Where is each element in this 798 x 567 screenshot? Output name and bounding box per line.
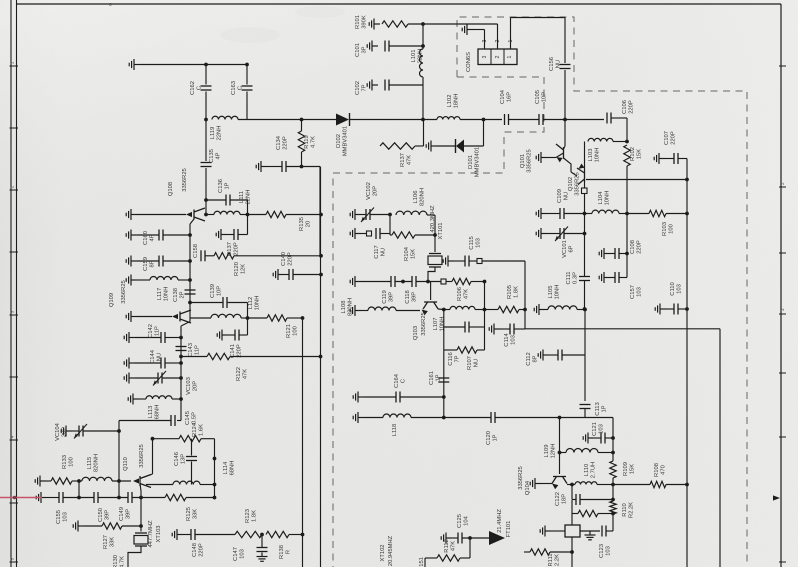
resistor R111 <box>578 510 598 516</box>
resistor R112 <box>437 555 460 561</box>
wire Q102 collector <box>584 142 586 171</box>
wire <box>611 117 627 119</box>
svg-text:0.3P: 0.3P <box>573 272 579 284</box>
frame tick <box>10 189 19 191</box>
capacitor C147 <box>257 548 268 552</box>
svg-text:420.3MHZ: 420.3MHZ <box>430 205 436 233</box>
svg-text:10P: 10P <box>542 92 548 102</box>
svg-text:C109: C109 <box>557 189 563 203</box>
junction <box>558 451 562 455</box>
capacitor C120 <box>491 412 495 423</box>
svg-text:8P: 8P <box>150 260 156 267</box>
wire <box>577 309 585 311</box>
resistor R138 <box>266 531 289 537</box>
svg-text:MMBV3401: MMBV3401 <box>475 147 481 177</box>
wire rail x559 <box>559 418 561 475</box>
svg-text:C123: C123 <box>599 544 605 558</box>
wire rail x181 <box>180 326 182 421</box>
junction <box>139 524 143 528</box>
capacitor C117 <box>376 228 380 239</box>
junction <box>421 118 425 122</box>
ground <box>126 311 137 322</box>
svg-text:R124: R124 <box>192 422 198 437</box>
wire <box>238 234 248 236</box>
wire <box>464 145 484 147</box>
junction <box>151 437 155 441</box>
signal arrow <box>489 531 505 545</box>
svg-text:3: 3 <box>482 55 488 58</box>
capacitor C110 <box>674 304 678 315</box>
svg-text:10P: 10P <box>217 286 223 296</box>
junction <box>433 233 437 237</box>
wire <box>627 213 649 215</box>
junction <box>442 395 446 399</box>
inductor L103 <box>588 138 613 141</box>
inductor L108 <box>368 307 396 311</box>
junction <box>401 280 405 284</box>
svg-text:22NH: 22NH <box>418 49 424 64</box>
junction <box>246 316 250 320</box>
wire <box>678 308 687 310</box>
emitter arrow Q110 <box>133 478 139 483</box>
wire <box>619 277 627 279</box>
junction <box>301 533 305 537</box>
wire <box>580 530 600 532</box>
wire long row y328 <box>525 328 720 330</box>
ground <box>36 492 47 503</box>
wire rail x443 <box>443 310 445 418</box>
wire <box>424 558 426 567</box>
svg-text:C136: C136 <box>218 179 224 193</box>
svg-text:R135: R135 <box>299 217 305 231</box>
wire <box>205 65 207 85</box>
svg-text:2P: 2P <box>180 291 186 298</box>
wire <box>437 145 456 147</box>
capacitor C101 <box>385 41 389 52</box>
svg-text:C113: C113 <box>595 402 601 415</box>
svg-text:R102: R102 <box>630 147 636 161</box>
wire <box>610 277 615 279</box>
svg-text:220P: 220P <box>288 252 294 266</box>
wire <box>227 302 248 304</box>
wire <box>524 261 526 310</box>
svg-text:1.8K: 1.8K <box>514 286 520 298</box>
svg-text:103: 103 <box>63 512 69 522</box>
junction <box>426 280 430 284</box>
wire <box>286 214 321 216</box>
svg-text:15K: 15K <box>630 464 636 474</box>
svg-text:1P: 1P <box>493 434 499 441</box>
resistor R107 <box>457 347 477 353</box>
svg-text:D101: D101 <box>468 155 474 169</box>
junction <box>483 280 487 284</box>
transistor Q108 <box>194 208 205 221</box>
ground <box>599 272 610 283</box>
wire <box>686 159 688 180</box>
junction <box>300 118 304 122</box>
junction <box>117 429 121 433</box>
wire <box>571 172 577 176</box>
svg-text:R101: R101 <box>355 15 361 29</box>
wire <box>612 478 614 501</box>
svg-text:22NH: 22NH <box>217 126 223 141</box>
svg-text:47K: 47K <box>243 369 249 379</box>
svg-text:XT103: XT103 <box>156 525 162 542</box>
junction <box>188 278 192 282</box>
frame tick <box>779 186 786 188</box>
wire <box>665 158 674 160</box>
wire <box>135 377 158 379</box>
svg-text:12K: 12K <box>241 264 247 274</box>
resistor R124 <box>179 436 201 442</box>
capacitor C150 <box>94 492 98 503</box>
svg-text:C: C <box>197 86 203 90</box>
capacitor C105 <box>539 114 543 125</box>
inductor L110 <box>575 482 597 485</box>
wire <box>364 396 396 398</box>
dashed boundary bottom of connector box <box>457 76 544 78</box>
svg-text:1P: 1P <box>436 374 442 381</box>
svg-text:C: C <box>238 86 244 90</box>
border frame left <box>10 0 12 567</box>
resistor R110 <box>610 501 616 514</box>
svg-text:20P: 20P <box>62 427 68 437</box>
wire <box>444 349 457 351</box>
wire rail x302 <box>302 318 304 567</box>
wire <box>666 484 687 486</box>
wire <box>626 166 628 214</box>
wire Q108 base rail <box>189 224 191 312</box>
svg-text:103: 103 <box>606 546 612 556</box>
inductor L106 <box>396 211 427 215</box>
svg-text:10NH: 10NH <box>255 296 261 311</box>
junction <box>245 63 249 67</box>
junction <box>611 436 615 440</box>
wire <box>132 497 165 499</box>
svg-text:XT101: XT101 <box>438 222 444 239</box>
svg-text:L106: L106 <box>413 191 419 204</box>
junction <box>685 483 689 487</box>
wire <box>191 439 193 456</box>
junction <box>611 498 615 502</box>
wire <box>83 430 119 432</box>
inductor L112 <box>211 314 241 318</box>
wire <box>572 513 578 515</box>
wire <box>469 260 477 262</box>
svg-text:NU: NU <box>157 353 163 361</box>
ground <box>367 41 378 52</box>
capacitor C149 <box>128 492 132 503</box>
border frame top <box>17 3 782 5</box>
junction <box>570 483 574 487</box>
ground <box>534 304 545 315</box>
svg-text:C138: C138 <box>173 288 179 302</box>
wire Q110 base <box>140 484 141 515</box>
svg-text:20P: 20P <box>193 381 199 391</box>
wire <box>389 84 423 86</box>
svg-text:Q102: Q102 <box>568 177 574 191</box>
wire <box>284 274 289 276</box>
wire <box>248 214 267 216</box>
junction <box>685 178 689 182</box>
resistor R105 <box>498 306 519 312</box>
svg-text:390K: 390K <box>362 15 368 29</box>
capacitor C141 <box>235 330 239 341</box>
resistor R119 <box>298 131 304 152</box>
wire <box>98 497 128 499</box>
wire <box>146 484 173 486</box>
wire <box>163 260 190 262</box>
svg-text:R104: R104 <box>404 246 410 261</box>
svg-text:L104: L104 <box>598 191 604 205</box>
svg-text:C106: C106 <box>622 100 628 114</box>
svg-text:2: 2 <box>495 55 501 58</box>
svg-text:C155: C155 <box>56 510 62 524</box>
capacitor C161 <box>438 378 449 382</box>
wire rail x390 <box>389 215 391 236</box>
svg-text:C163: C163 <box>231 81 237 95</box>
wire <box>301 120 303 132</box>
Q102 emitter pad <box>582 188 588 194</box>
svg-text:8P: 8P <box>533 355 539 362</box>
capacitor C160 <box>159 230 163 241</box>
connector CON6S body <box>478 49 517 65</box>
wire <box>395 281 412 283</box>
svg-text:C164: C164 <box>394 373 400 388</box>
svg-text:C104: C104 <box>500 89 506 104</box>
inductor L104 <box>592 210 619 213</box>
svg-text:R: R <box>286 550 292 554</box>
capacitor C114 <box>510 324 514 335</box>
wire <box>524 310 526 330</box>
svg-text:39P: 39P <box>105 510 111 520</box>
svg-text:VC102: VC102 <box>366 182 372 200</box>
frame tick <box>10 561 19 563</box>
junction <box>213 457 217 461</box>
capacitor C162 <box>201 86 212 90</box>
wire rail to Q101 <box>564 70 566 146</box>
svg-text:4.7K: 4.7K <box>311 136 317 148</box>
inductor L109 <box>566 449 598 453</box>
wire <box>230 199 248 201</box>
wire <box>626 118 628 142</box>
svg-text:C116: C116 <box>448 352 454 365</box>
junction <box>563 118 567 122</box>
svg-text:L110: L110 <box>584 464 590 476</box>
svg-text:C150: C150 <box>98 508 104 522</box>
junction <box>117 496 121 500</box>
transistor Q104 <box>552 477 567 484</box>
junction <box>558 416 562 420</box>
wire rail x484 <box>484 282 486 351</box>
wire Q102 to pad <box>584 182 586 188</box>
junction <box>188 301 192 305</box>
resistor R101 <box>382 21 408 27</box>
svg-text:L108: L108 <box>341 301 347 314</box>
svg-text:103: 103 <box>240 549 246 559</box>
frame arrow mark <box>773 495 780 500</box>
wire <box>547 233 560 235</box>
capacitor C115 <box>465 256 469 267</box>
resistor R108 <box>650 481 666 487</box>
svg-text:103: 103 <box>677 284 683 294</box>
svg-text:R106: R106 <box>457 287 463 301</box>
svg-text:2.2K: 2.2K <box>555 554 561 566</box>
capacitor C138 <box>185 290 196 294</box>
svg-text:R125: R125 <box>186 507 192 521</box>
svg-text:3356R25: 3356R25 <box>139 444 145 468</box>
svg-text:Q101: Q101 <box>520 154 526 168</box>
junction <box>188 259 192 263</box>
svg-text:C139: C139 <box>210 284 216 298</box>
junction <box>179 376 183 380</box>
wire <box>678 158 687 160</box>
svg-text:C119: C119 <box>382 290 388 303</box>
capacitor C136 <box>226 195 230 206</box>
svg-text:R119: R119 <box>304 135 310 148</box>
svg-text:R127: R127 <box>103 535 109 549</box>
junction <box>388 213 392 217</box>
ground <box>585 531 596 540</box>
diode D102 <box>336 114 349 126</box>
junction <box>319 273 323 277</box>
svg-text:C118: C118 <box>405 290 411 303</box>
wire <box>425 557 437 559</box>
svg-text:15K: 15K <box>637 149 643 159</box>
wire <box>598 452 613 454</box>
resistor R106 <box>452 278 471 284</box>
capacitor C134 <box>282 161 286 172</box>
wire <box>361 281 391 283</box>
capacitor C144 <box>161 358 165 369</box>
wire <box>571 485 573 500</box>
svg-text:3356R25: 3356R25 <box>121 280 127 304</box>
wire <box>462 537 489 539</box>
wire <box>482 260 525 262</box>
junction <box>625 140 629 144</box>
resistor R123 <box>235 531 262 537</box>
inductor L101 <box>420 49 424 77</box>
junction <box>319 254 323 258</box>
wire <box>610 253 615 255</box>
ground <box>73 521 84 532</box>
wire <box>46 480 51 482</box>
wire to L112 <box>190 317 211 319</box>
wire <box>567 484 575 486</box>
capacitor C143 <box>176 347 187 351</box>
wire <box>545 309 548 311</box>
wire <box>460 557 470 559</box>
wire <box>165 337 181 339</box>
junction <box>583 308 587 312</box>
svg-text:NU: NU <box>474 359 480 367</box>
svg-text:C108: C108 <box>630 240 636 254</box>
wire <box>186 497 215 499</box>
svg-text:3356R25: 3356R25 <box>182 168 188 192</box>
svg-text:C142: C142 <box>148 324 154 338</box>
svg-text:C117: C117 <box>374 245 380 258</box>
svg-text:68NH: 68NH <box>230 461 236 476</box>
wire Q102 base row <box>586 179 687 181</box>
capacitor C112 <box>558 350 562 361</box>
diode D101 <box>456 140 464 153</box>
svg-text:C111: C111 <box>566 272 572 285</box>
wire <box>550 551 572 553</box>
emitter arrow Q104 <box>552 484 558 490</box>
wire <box>361 310 368 312</box>
svg-text:R133: R133 <box>62 455 68 469</box>
svg-text:3356R25: 3356R25 <box>527 149 533 173</box>
wire <box>605 437 613 439</box>
resistor R125 <box>165 494 186 500</box>
svg-text:39P: 39P <box>126 509 132 519</box>
svg-text:C121: C121 <box>592 422 598 436</box>
svg-text:47K: 47K <box>451 541 457 551</box>
wire pad down <box>584 194 586 214</box>
svg-text:R110: R110 <box>622 503 628 516</box>
wire <box>666 308 674 310</box>
svg-text:C120: C120 <box>486 431 492 445</box>
svg-text:7P: 7P <box>362 84 368 91</box>
svg-text:220P: 220P <box>671 131 677 145</box>
wire <box>78 481 80 498</box>
wire <box>181 356 207 358</box>
junction <box>300 165 304 169</box>
emitter arrow Q108 <box>186 212 192 217</box>
resistor R120 <box>214 253 234 259</box>
svg-text:R120: R120 <box>234 262 240 276</box>
wire rail x152 <box>152 439 154 474</box>
svg-text:4P: 4P <box>150 234 156 241</box>
svg-text:47K: 47K <box>407 155 413 165</box>
inductor L105 <box>548 306 577 310</box>
svg-text:C114: C114 <box>504 333 510 347</box>
resistor R121 <box>267 315 287 321</box>
variable capacitor VC104 <box>79 426 83 437</box>
ground <box>273 269 284 280</box>
inductor L107 <box>450 306 475 309</box>
wire <box>389 45 423 47</box>
ground <box>353 392 364 403</box>
capacitor C116 <box>465 322 469 333</box>
capacitor C159 <box>159 256 163 267</box>
wire <box>666 213 687 215</box>
junction <box>188 233 192 237</box>
wire <box>541 483 552 485</box>
wire <box>475 309 485 311</box>
svg-text:C112: C112 <box>526 352 532 365</box>
wire <box>564 213 585 215</box>
wire <box>562 354 585 356</box>
variable capacitor VC102 <box>366 209 370 220</box>
wire <box>370 214 390 216</box>
ground <box>443 256 454 267</box>
resistor R109 <box>610 461 616 478</box>
wire <box>606 530 613 532</box>
resistor R104 <box>392 232 415 238</box>
ground <box>489 324 500 335</box>
svg-text:10NH: 10NH <box>555 285 561 300</box>
inductor L119 <box>212 116 238 119</box>
wire <box>390 234 392 236</box>
ground <box>540 526 551 537</box>
svg-text:1P: 1P <box>602 405 608 412</box>
resistor R102 <box>624 145 630 166</box>
wire rail x206 <box>205 120 207 162</box>
frame tick <box>779 65 786 67</box>
svg-text:68NH: 68NH <box>155 405 161 420</box>
wire <box>509 119 540 121</box>
